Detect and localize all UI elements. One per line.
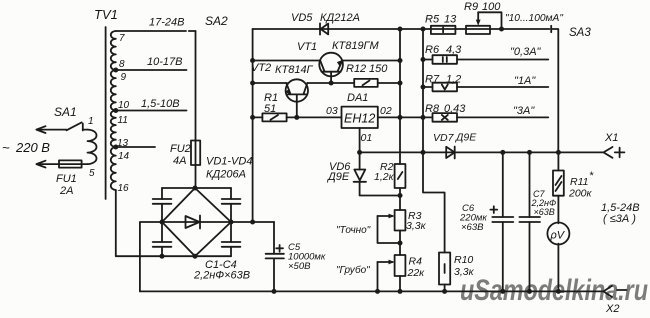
node tap 10/11: [113, 108, 118, 113]
svg-text:02: 02: [380, 105, 392, 117]
bus A R2 to R3: [399, 188, 401, 210]
svg-text:100: 100: [482, 1, 501, 13]
wire VT1 collector: [253, 60, 321, 62]
svg-text:VT1: VT1: [297, 41, 317, 53]
svg-text:1,5-10В: 1,5-10В: [141, 98, 180, 110]
svg-text:VD5: VD5: [291, 12, 313, 24]
node bridge left corner: [160, 220, 165, 225]
svg-text:1,2к: 1,2к: [374, 171, 395, 183]
switch SA2 pole wire down to FU2: [195, 31, 197, 188]
wire tap 10/11 contact: [116, 110, 187, 112]
svg-text:2А: 2А: [59, 185, 73, 197]
svg-text:ρV: ρV: [550, 230, 566, 242]
R9 wiper bracket: [478, 12, 501, 29]
svg-text:R12: R12: [346, 63, 366, 75]
arrow 220V top: [36, 126, 45, 133]
node R4 wiper on rail: [375, 289, 380, 294]
wire tap 13/14 stub: [116, 146, 155, 148]
svg-text:1,2: 1,2: [446, 74, 461, 86]
potentiometer R9: [466, 26, 490, 34]
svg-text:КТ819ГМ: КТ819ГМ: [332, 40, 380, 52]
wire bridge left corner to negative rail: [140, 222, 162, 291]
svg-text:"Точно": "Точно": [336, 225, 371, 236]
bus A R3 to R4: [399, 231, 401, 256]
svg-text:9: 9: [121, 72, 127, 83]
svg-text:Д9Е: Д9Е: [326, 171, 350, 183]
node VT2 base on R1 wire: [294, 115, 299, 120]
transistor VT1: [319, 53, 343, 77]
svg-text:10: 10: [118, 100, 130, 111]
wire VT2 emitter from left bus: [253, 82, 287, 84]
svg-text:150: 150: [369, 63, 388, 75]
svg-text:"1А": "1А": [514, 75, 536, 87]
svg-text:R7: R7: [425, 74, 440, 86]
svg-text:8: 8: [119, 59, 125, 70]
svg-text:КТ814Г: КТ814Г: [275, 64, 314, 76]
svg-text:SA3: SA3: [569, 27, 591, 39]
svg-text:R10: R10: [454, 254, 473, 266]
potentiometer R4: [395, 255, 406, 276]
svg-text:5: 5: [89, 168, 95, 179]
resistor R10: [439, 253, 450, 285]
node VT1 base junction: [329, 81, 334, 86]
left bus up to regulator: [252, 29, 254, 222]
capacitor C6 plates: [492, 217, 513, 222]
fuse FU2: [191, 141, 200, 166]
svg-text:13: 13: [444, 14, 457, 26]
svg-text:"Грубо": "Грубо": [336, 264, 370, 276]
svg-text:×50В: ×50В: [288, 261, 311, 272]
svg-text:03: 03: [326, 105, 338, 117]
node bus A top: [398, 27, 403, 32]
diode VD7: [446, 147, 455, 158]
capacitor C1 (upper-left): [161, 188, 163, 222]
wire VT1 emitter to bus A: [342, 60, 400, 62]
node bridge bottom corner: [193, 254, 198, 259]
svg-text:4,3: 4,3: [446, 44, 462, 56]
transformer TV1 primary winding: [88, 130, 97, 165]
transformer TV1 core: [105, 27, 107, 199]
wire meter to rail: [557, 244, 559, 292]
node bus A on rail: [398, 289, 403, 294]
node C5 on negative rail: [272, 289, 277, 294]
terminal X1: [604, 147, 613, 158]
svg-text:X2: X2: [605, 303, 619, 315]
minus sign X2: [617, 289, 627, 291]
svg-text:16: 16: [118, 183, 130, 194]
transformer TV1 secondary winding section 14-16: [111, 147, 116, 190]
node emitter on bus A: [398, 58, 403, 63]
resistor R5: [431, 26, 456, 34]
shunt bus B vertical: [423, 29, 445, 253]
svg-text:17-24В: 17-24В: [149, 17, 184, 29]
voltmeter PV: [547, 223, 569, 245]
node collector wire on left bus: [250, 58, 255, 63]
svg-text:VD7: VD7: [433, 132, 455, 144]
svg-text:КД206А: КД206А: [206, 169, 246, 181]
top wire with VD5: [253, 28, 550, 30]
node DA1 pin1 junction: [357, 150, 362, 155]
arrow 220V bottom: [36, 161, 45, 168]
svg-text:×63В: ×63В: [534, 207, 555, 217]
node left bus on bridge + wire: [250, 220, 255, 225]
node bridge top corner: [193, 186, 198, 191]
potentiometer R3: [395, 210, 406, 231]
svg-text:10-17В: 10-17В: [147, 56, 182, 68]
resistor R11: [553, 171, 564, 196]
plus sign X1: [615, 148, 625, 158]
wire VT2 collector to VT1 base junction and R12: [307, 82, 354, 84]
SA3 closed contact tick: [550, 26, 552, 32]
svg-text:R4: R4: [409, 256, 423, 268]
bridge inner diode line: [162, 221, 231, 223]
svg-text:( ≤3А ): ( ≤3А ): [603, 213, 636, 225]
terminal X2: [604, 286, 613, 297]
capacitor C5 plates: [266, 254, 284, 259]
R3 wiper arrow: [378, 215, 393, 217]
capacitor C5 plus: [276, 245, 283, 252]
wire R1 row: [253, 116, 342, 118]
transformer TV1 secondary winding section 7-8: [111, 31, 116, 70]
node tap 8/9: [113, 68, 118, 73]
svg-text:VT2: VT2: [251, 62, 271, 74]
wire through FU1 to arrow: [40, 163, 88, 165]
transformer TV1 secondary winding section 9-10: [111, 70, 116, 110]
negative bottom rail: [140, 290, 604, 292]
svg-text:2,2нФ×63В: 2,2нФ×63В: [193, 270, 250, 282]
svg-text:ЕН12: ЕН12: [344, 112, 375, 126]
transformer TV1 secondary winding section 11-13: [111, 111, 116, 148]
wire R12 to bus A: [378, 82, 400, 84]
resistor R6 row: [423, 59, 548, 61]
svg-text:VD1-VD4: VD1-VD4: [206, 156, 252, 168]
resistor R2: [395, 164, 406, 188]
capacitor C6 plus: [490, 206, 497, 213]
svg-text:КД212А: КД212А: [320, 12, 360, 24]
wire tap 7 to SA2 pole: [116, 30, 196, 32]
resistor R12: [354, 79, 378, 87]
wire pin 02 to bus A: [378, 116, 423, 118]
wire pin16 down to bridge bottom corner: [116, 190, 231, 256]
capacitor C5 wire: [273, 222, 275, 291]
svg-text:R5: R5: [425, 14, 440, 26]
resistor R7 row: [423, 86, 548, 88]
bridge inner diode: [186, 216, 200, 228]
node R12 on bus A: [398, 81, 403, 86]
svg-text:Д9Е: Д9Е: [455, 132, 477, 144]
wire R10 bottom to rail: [444, 285, 446, 292]
svg-text:R11: R11: [570, 176, 588, 188]
bridge rectifier VD1-VD4 diamond: [162, 188, 231, 256]
svg-text:SA2: SA2: [205, 14, 228, 28]
switch SA3 pole: [551, 29, 558, 152]
node R1 wire on left bus: [250, 115, 255, 120]
bus A R4 to rail: [399, 276, 401, 291]
resistor R1: [262, 113, 286, 121]
transistor VT2: [286, 79, 308, 101]
svg-text:SA1: SA1: [54, 105, 77, 119]
svg-text:R9: R9: [464, 1, 478, 13]
svg-text:3,3к: 3,3к: [454, 266, 475, 278]
svg-text:4А: 4А: [173, 155, 186, 167]
fuse FU1: [59, 160, 82, 167]
wire SA1 to line arrow: [40, 129, 67, 131]
node R3 wiper join: [398, 241, 403, 246]
capacitor C4 (lower-right): [230, 222, 232, 256]
wire tap 8/9 contact: [116, 69, 187, 71]
svg-text:~: ~: [2, 140, 10, 155]
X1 output wire: [360, 151, 604, 153]
wire pin1 to primary: [83, 129, 88, 131]
capacitor C3 (lower-left): [161, 222, 163, 256]
diode VD5: [321, 24, 329, 35]
resistor R11 wire: [557, 152, 559, 223]
svg-text:1: 1: [88, 116, 94, 127]
svg-text:3,3к: 3,3к: [406, 220, 427, 232]
svg-text:"0,3А": "0,3А": [510, 46, 542, 58]
svg-text:X1: X1: [604, 132, 618, 144]
svg-text:FU2: FU2: [170, 143, 191, 155]
svg-text:0,43: 0,43: [444, 103, 466, 115]
svg-text:R6: R6: [425, 44, 440, 56]
capacitor C7 plates: [519, 217, 540, 222]
node R9 bracket on top wire: [499, 27, 504, 32]
svg-text:22к: 22к: [407, 267, 426, 279]
svg-text:"10...100мА": "10...100мА": [505, 12, 564, 24]
R9 wiper arrow: [477, 12, 479, 22]
svg-text:DA1: DA1: [347, 92, 368, 104]
svg-text:×63В: ×63В: [461, 222, 484, 233]
node VT2 emitter wire on left bus: [250, 81, 255, 86]
wire bridge right corner to C5: [231, 221, 274, 223]
capacitor C2 (upper-right): [230, 188, 232, 222]
op-amp regulator DA1 box: [342, 107, 378, 128]
node tap 13/14: [113, 145, 118, 150]
node 02 on bus A: [398, 115, 403, 120]
svg-text:TV1: TV1: [94, 7, 118, 22]
capacitor C7 wire: [529, 152, 531, 291]
svg-text:220 В: 220 В: [15, 140, 50, 155]
node R2 bottom VD6 junction: [398, 193, 403, 198]
switch SA1 contact tick pin1: [82, 124, 84, 131]
svg-text:R8: R8: [425, 103, 440, 115]
svg-text:01: 01: [361, 132, 373, 144]
switch SA1 lever: [67, 122, 82, 130]
node bridge right corner: [229, 220, 234, 225]
node C3 rail bottom: [160, 254, 165, 259]
node bus B top: [421, 27, 426, 32]
R4 wiper arrow: [378, 261, 393, 263]
svg-text:11: 11: [118, 115, 128, 126]
diode VD6 wire: [360, 152, 400, 195]
svg-text:200к: 200к: [568, 188, 593, 200]
svg-text:7: 7: [119, 33, 125, 44]
svg-text:FU1: FU1: [56, 173, 77, 185]
bus A vertical: [399, 29, 401, 164]
resistor R8 row: [423, 116, 548, 118]
svg-text:14: 14: [118, 151, 130, 162]
capacitor C6 wire: [502, 152, 504, 291]
wire pin 01 down: [359, 128, 361, 152]
svg-text:*: *: [589, 170, 594, 182]
diode VD6: [354, 170, 365, 181]
svg-text:"3А": "3А": [513, 105, 535, 117]
svg-text:51: 51: [264, 103, 276, 115]
bridge top cross bar: [162, 187, 231, 189]
node bus B on X1 wire: [421, 150, 426, 155]
